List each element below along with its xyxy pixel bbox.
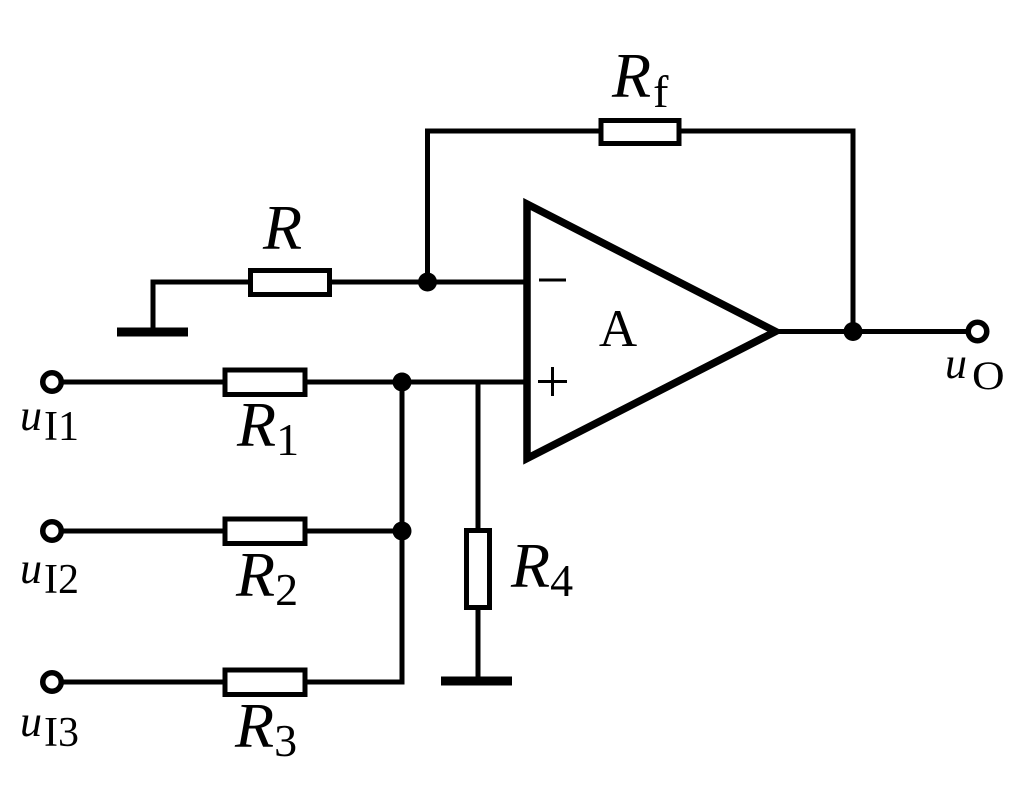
wire uI2 to R2 (64, 529, 226, 534)
resistor R3 (225, 670, 305, 695)
op-amp A triangle (527, 204, 776, 459)
wire R4 to ground2 (476, 608, 481, 681)
wire feedback top right (679, 129, 856, 134)
svg-text:R4: R4 (510, 530, 573, 606)
terminal uO (968, 322, 987, 341)
wire uI1 to R1 (64, 380, 226, 385)
svg-text:A: A (599, 300, 637, 358)
wire ground1 to R (151, 280, 251, 285)
node junction B (dot on uI2 line) (393, 522, 412, 541)
svg-text:O: O (972, 354, 1005, 398)
svg-text:R1: R1 (236, 389, 299, 465)
terminal uI2 (43, 522, 62, 541)
wire summing bus vertical (400, 382, 405, 685)
svg-text:uI1: uI1 (20, 391, 79, 450)
terminal uI3 (43, 673, 62, 692)
svg-text:uI2: uI2 (20, 544, 79, 603)
op-amp plus sign (538, 380, 567, 383)
wire R4 tap vertical (476, 382, 481, 531)
resistor R2 (225, 519, 305, 544)
node junction A (dot on uI1 line) (393, 373, 412, 392)
resistor R4 (467, 531, 490, 608)
node junction output (dot) (844, 322, 863, 341)
svg-text:R: R (262, 192, 302, 263)
resistor Rf (601, 121, 679, 144)
svg-text:u: u (945, 339, 967, 388)
wire uI3 to R3 (64, 680, 226, 685)
svg-text:Rf: Rf (611, 40, 669, 117)
wire R1 to non-inverting input (305, 380, 527, 385)
svg-text:R2: R2 (235, 539, 298, 615)
wire R2 to bus (305, 529, 405, 534)
wire output (776, 329, 967, 334)
svg-text:R3: R3 (234, 690, 297, 766)
node junction inverting (dot) (418, 273, 437, 292)
op-amp minus sign (539, 279, 566, 282)
wire R to inverting input (330, 280, 528, 285)
wire feedback top left (425, 129, 601, 134)
wire feedback vertical right (Rf to output) (851, 129, 856, 332)
svg-text:uI3: uI3 (20, 697, 79, 756)
wire feedback vertical left (inverting node to Rf) (425, 129, 430, 283)
terminal uI1 (43, 373, 62, 392)
wire R3 to bus corner (305, 680, 405, 685)
ground 2 bar (441, 677, 512, 686)
resistor R (251, 271, 330, 295)
ground 1 bar (117, 328, 188, 337)
resistor R1 (225, 370, 305, 395)
wire ground1 vertical (151, 280, 156, 332)
